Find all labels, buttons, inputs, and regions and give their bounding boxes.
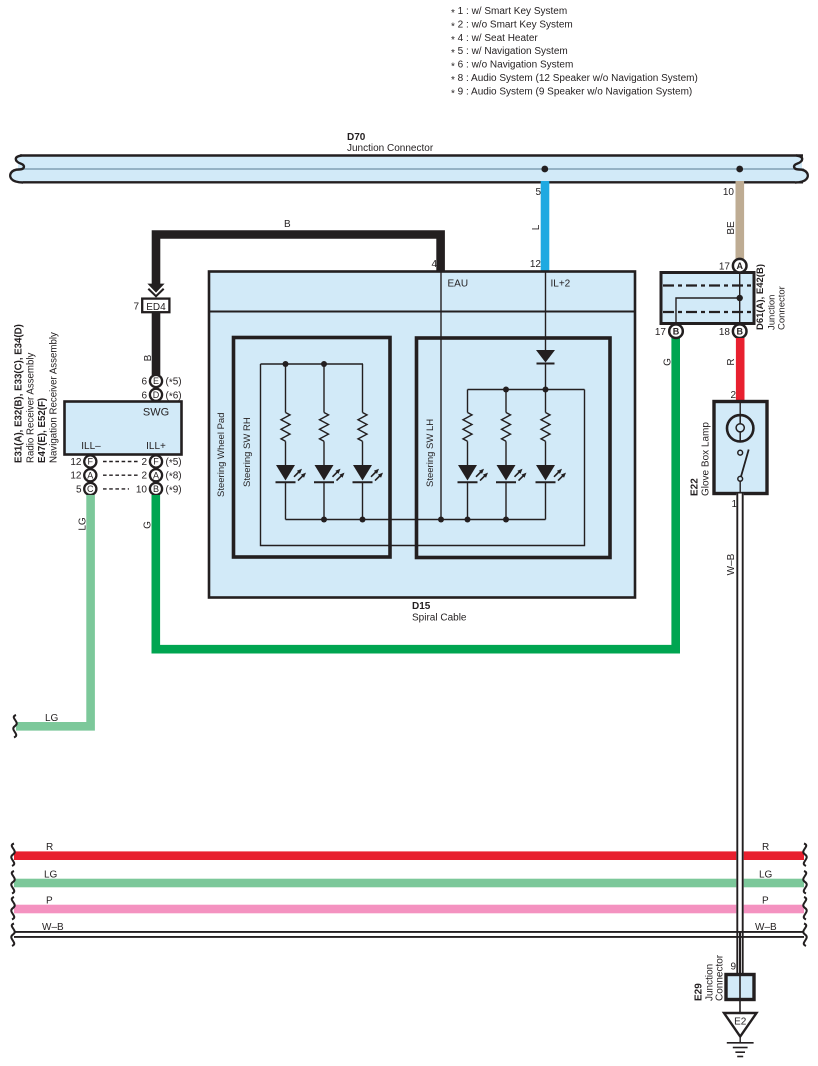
svg-text:D61(A), E42(B): D61(A), E42(B) bbox=[755, 264, 766, 330]
junction connector D70 label bbox=[347, 132, 434, 154]
svg-text:* 8 : Audio System (12 Speaker: * 8 : Audio System (12 Speaker w/o Navig… bbox=[451, 73, 698, 86]
svg-text:6: 6 bbox=[141, 390, 147, 401]
svg-text:L: L bbox=[531, 224, 542, 230]
glove box lamp E22 box bbox=[714, 402, 767, 494]
svg-text:ILL–: ILL– bbox=[81, 441, 101, 452]
node junction dot on D70 for wire L bbox=[541, 166, 548, 173]
E22 label (rotated) bbox=[690, 422, 712, 496]
svg-text:EAU: EAU bbox=[448, 279, 469, 290]
wire W-B vertical from E22 pin 1 to E29 bbox=[736, 494, 743, 974]
svg-text:P: P bbox=[762, 895, 769, 906]
wire P horizontal bus bbox=[14, 905, 804, 914]
svg-text:B: B bbox=[284, 219, 291, 230]
junction connector D61 box bbox=[661, 273, 754, 324]
svg-text:W–B: W–B bbox=[726, 553, 737, 575]
illumination cell RH column 2 bbox=[314, 364, 345, 520]
svg-text:(*5): (*5) bbox=[166, 457, 182, 469]
svg-text:(*5): (*5) bbox=[166, 377, 182, 389]
E29 label (rotated) bbox=[694, 954, 726, 1001]
svg-text:10: 10 bbox=[136, 484, 148, 495]
pin row F/F bbox=[70, 455, 181, 469]
LH top rail wire bbox=[468, 389, 585, 391]
spiral cable D15 outer box bbox=[209, 272, 635, 598]
D61 label (rotated) bbox=[755, 264, 788, 330]
svg-text:Junction Connector: Junction Connector bbox=[347, 143, 434, 154]
svg-text:* 6 : w/o Navigation System: * 6 : w/o Navigation System bbox=[451, 60, 573, 73]
svg-text:ILL+: ILL+ bbox=[146, 441, 166, 452]
svg-text:Radio Receiver Assembly: Radio Receiver Assembly bbox=[26, 352, 37, 463]
svg-text:G: G bbox=[663, 358, 674, 366]
ground point E2 triangle bbox=[724, 1013, 757, 1037]
svg-text:17: 17 bbox=[655, 327, 667, 338]
svg-text:LG: LG bbox=[45, 713, 59, 724]
svg-text:BE: BE bbox=[726, 221, 737, 235]
svg-text:ED4: ED4 bbox=[146, 302, 166, 313]
svg-text:2: 2 bbox=[141, 457, 147, 468]
svg-text:LG: LG bbox=[44, 869, 58, 880]
svg-text:* 2 : w/o Smart Key System: * 2 : w/o Smart Key System bbox=[451, 19, 573, 32]
node dots on LH top rail bbox=[503, 387, 509, 393]
svg-text:18: 18 bbox=[719, 327, 731, 338]
svg-text:R: R bbox=[46, 842, 53, 853]
illumination cell RH column 1 bbox=[276, 364, 307, 520]
svg-text:E47(E), E52(F): E47(E), E52(F) bbox=[37, 398, 48, 463]
svg-text:(*9): (*9) bbox=[166, 484, 182, 496]
svg-text:P: P bbox=[46, 895, 53, 906]
pin row A/A bbox=[70, 469, 181, 483]
svg-text:Glove Box Lamp: Glove Box Lamp bbox=[701, 422, 712, 496]
svg-text:B: B bbox=[143, 354, 154, 361]
svg-text:Navigation Receiver Assembly: Navigation Receiver Assembly bbox=[49, 332, 60, 463]
svg-text:D15: D15 bbox=[412, 601, 431, 612]
break squiggles right ends bbox=[803, 844, 806, 947]
svg-text:17: 17 bbox=[719, 262, 731, 273]
junction connector E29 box bbox=[726, 975, 754, 1000]
svg-text:E2: E2 bbox=[734, 1017, 747, 1028]
break squiggle at LG end bbox=[13, 715, 16, 738]
pin E circle bbox=[141, 375, 181, 389]
steering SW RH inner box bbox=[234, 338, 391, 558]
radio receiver assembly label block bbox=[14, 324, 60, 463]
svg-text:W–B: W–B bbox=[42, 922, 64, 933]
svg-text:12: 12 bbox=[70, 457, 82, 468]
diode on IL+2 line bbox=[536, 350, 555, 390]
arrow into ED4 bbox=[147, 284, 164, 297]
svg-text:9: 9 bbox=[730, 962, 736, 973]
wire W-B branch from bus into E29 pin 9 bbox=[739, 932, 741, 973]
D15 header cell divider / wire EAU bbox=[440, 272, 442, 520]
lamp symbol bbox=[727, 403, 753, 442]
svg-text:Connector: Connector bbox=[715, 954, 726, 1001]
svg-text:Steering SW RH: Steering SW RH bbox=[242, 417, 253, 487]
ground symbol bbox=[727, 1037, 754, 1057]
svg-text:E31(A), E32(B), E33(C), E34(D): E31(A), E32(B), E33(C), E34(D) bbox=[14, 324, 25, 463]
svg-text:D: D bbox=[153, 390, 160, 400]
svg-text:E22: E22 bbox=[690, 478, 701, 496]
ground point ED4 box bbox=[133, 299, 169, 313]
svg-text:B: B bbox=[153, 484, 159, 494]
bottom common rail wire bbox=[286, 519, 546, 521]
illumination cell LH column 2 bbox=[496, 390, 527, 520]
svg-text:* 4 : w/ Seat Heater: * 4 : w/ Seat Heater bbox=[451, 33, 538, 46]
radio receiver assembly SWG box bbox=[65, 402, 182, 455]
wire B below ED4 to radio assembly pin E bbox=[152, 313, 161, 376]
svg-text:A: A bbox=[153, 470, 159, 480]
svg-text:5: 5 bbox=[76, 484, 82, 495]
svg-text:B: B bbox=[673, 327, 680, 337]
svg-text:E29: E29 bbox=[694, 983, 705, 1001]
svg-text:5: 5 bbox=[535, 187, 541, 198]
svg-text:D70: D70 bbox=[347, 132, 366, 143]
switch symbol bbox=[738, 450, 749, 493]
svg-text:Steering SW LH: Steering SW LH bbox=[425, 419, 436, 487]
wire BE (tan) from D70 pin 10 to D61 pin A bbox=[736, 181, 745, 259]
wire G from pin B down, right, and up to D61 pin B bbox=[156, 338, 676, 649]
wire R (red) from D61 pin B to E22 pin 2 bbox=[736, 338, 745, 402]
wire L (blue) from D70 pin 5 to D15 pin 12 bbox=[541, 181, 550, 272]
svg-text:IL+2: IL+2 bbox=[551, 279, 571, 290]
D15 caption bbox=[412, 601, 467, 624]
pin B (18) circle of D61 bbox=[719, 324, 747, 338]
D15 header cell divider / wire IL+2 upper part bbox=[545, 272, 547, 351]
svg-text:* 9 : Audio System (9 Speaker: * 9 : Audio System (9 Speaker w/o Naviga… bbox=[451, 86, 692, 99]
break squiggles left ends bbox=[11, 844, 14, 947]
svg-text:(*8): (*8) bbox=[166, 471, 182, 483]
svg-text:12: 12 bbox=[70, 471, 82, 482]
illumination cell LH column 1 bbox=[458, 390, 489, 520]
svg-text:Steering Wheel Pad: Steering Wheel Pad bbox=[216, 413, 227, 498]
node junction dot on D70 for wire BE bbox=[736, 166, 743, 173]
svg-text:* 1 : w/ Smart Key System: * 1 : w/ Smart Key System bbox=[451, 6, 567, 19]
junction connector D70 bus bar bbox=[10, 156, 808, 183]
wire from E29 to ground triangle bbox=[739, 1001, 741, 1013]
svg-text:F: F bbox=[88, 457, 94, 467]
node dots on bottom rail bbox=[321, 517, 327, 523]
svg-text:* 5 : w/ Navigation System: * 5 : w/ Navigation System bbox=[451, 46, 568, 59]
wire W-B horizontal bus bbox=[14, 932, 804, 937]
pin A circle of D61 bbox=[719, 259, 747, 273]
svg-text:7: 7 bbox=[133, 302, 139, 313]
svg-text:R: R bbox=[762, 842, 769, 853]
pin B (17) circle of D61 bbox=[655, 324, 683, 338]
illumination cell LH column 3 bbox=[536, 390, 567, 520]
svg-text:A: A bbox=[736, 261, 743, 271]
svg-text:6: 6 bbox=[141, 377, 147, 388]
RH top rail wire bbox=[261, 363, 364, 365]
node dots on RH top rail bbox=[283, 361, 289, 367]
svg-text:Spiral Cable: Spiral Cable bbox=[412, 613, 467, 624]
wire B (thick black) from ED4 up and over to D15 pin 4 bbox=[156, 235, 441, 286]
svg-text:B: B bbox=[736, 327, 743, 337]
wire LG from pin C down and left bbox=[16, 495, 91, 726]
svg-text:Connector: Connector bbox=[777, 286, 788, 330]
svg-text:LG: LG bbox=[78, 517, 89, 531]
svg-text:E: E bbox=[153, 376, 159, 386]
svg-text:W–B: W–B bbox=[755, 922, 777, 933]
legend note list bbox=[451, 6, 698, 99]
wire R horizontal bus bbox=[14, 851, 804, 860]
svg-text:R: R bbox=[726, 358, 737, 365]
svg-text:12: 12 bbox=[530, 259, 542, 270]
illumination cell RH column 3 bbox=[353, 364, 384, 520]
svg-text:2: 2 bbox=[141, 471, 147, 482]
svg-text:LG: LG bbox=[759, 869, 773, 880]
pin D circle bbox=[141, 389, 181, 403]
RH left feed wire down and right to LH rail riser bbox=[261, 364, 585, 546]
pin row C/B bbox=[76, 483, 182, 497]
steering SW LH inner box bbox=[417, 338, 611, 558]
svg-text:C: C bbox=[87, 484, 94, 494]
svg-text:10: 10 bbox=[723, 187, 735, 198]
svg-text:4: 4 bbox=[431, 259, 437, 270]
svg-text:SWG: SWG bbox=[143, 407, 169, 419]
svg-text:F: F bbox=[153, 457, 159, 467]
wire LG horizontal bus bbox=[14, 879, 804, 888]
svg-text:A: A bbox=[87, 470, 93, 480]
svg-text:G: G bbox=[143, 521, 154, 529]
svg-text:2: 2 bbox=[730, 390, 736, 401]
